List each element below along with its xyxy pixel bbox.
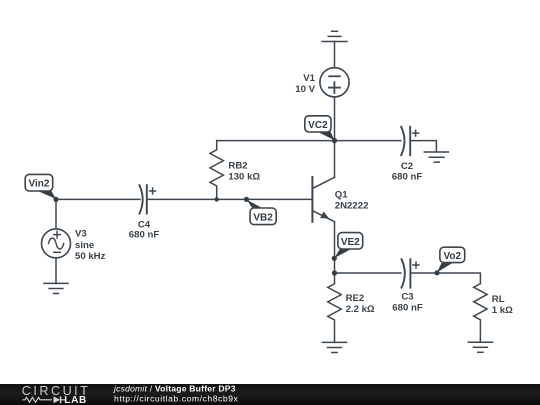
label RE2 value bbox=[346, 293, 375, 315]
svg-text:VC2: VC2 bbox=[308, 120, 328, 131]
node VC2 flag bbox=[305, 116, 335, 141]
svg-text:C2: C2 bbox=[401, 161, 413, 172]
capacitor C4 bbox=[139, 185, 146, 213]
svg-text:jcsdomit / Voltage Buffer DP3: jcsdomit / Voltage Buffer DP3 bbox=[113, 384, 236, 394]
svg-text:2.2 kΩ: 2.2 kΩ bbox=[346, 304, 375, 315]
label RB2 value bbox=[228, 161, 260, 183]
wire emitter rail right of C3 bbox=[410, 273, 480, 284]
svg-text:680 nF: 680 nF bbox=[129, 230, 160, 241]
wire C2 to ground bbox=[410, 141, 436, 152]
transistor Q1 bbox=[312, 141, 334, 273]
resistor RB2 bbox=[210, 141, 223, 200]
svg-text:RB2: RB2 bbox=[228, 161, 247, 172]
label C3 value bbox=[392, 292, 423, 314]
junction node dots bbox=[53, 138, 439, 276]
footer credit text bbox=[113, 384, 239, 404]
ground (RE2) bbox=[322, 342, 346, 352]
footer bar bbox=[0, 384, 540, 405]
svg-text:V1: V1 bbox=[303, 73, 315, 84]
label Q1 value bbox=[335, 190, 369, 212]
svg-text:V3: V3 bbox=[75, 229, 87, 240]
svg-text:680 nF: 680 nF bbox=[392, 172, 423, 183]
svg-text:Vin2: Vin2 bbox=[29, 179, 50, 190]
wire top rail bbox=[217, 140, 401, 142]
svg-text:RL: RL bbox=[492, 294, 505, 305]
wire base rail left of C4 bbox=[56, 198, 140, 200]
wire ground to V1 top bbox=[334, 42, 336, 68]
capacitor C2 bbox=[401, 127, 410, 155]
label V1 value bbox=[295, 73, 315, 95]
wire base rail right of C4 bbox=[147, 198, 312, 200]
svg-text:C3: C3 bbox=[401, 292, 413, 303]
wire emitter rail bbox=[335, 272, 401, 274]
label RL value bbox=[492, 294, 513, 316]
label C4 value bbox=[129, 219, 160, 240]
svg-text:sine: sine bbox=[75, 240, 94, 251]
node VE2 flag bbox=[334, 233, 362, 258]
capacitor C3 bbox=[402, 259, 411, 287]
svg-text:50 kHz: 50 kHz bbox=[75, 251, 106, 262]
wire V1 bottom to VC2 node bbox=[334, 97, 336, 141]
wire Vin2 down to V3 bbox=[55, 199, 57, 228]
svg-text:10 V: 10 V bbox=[295, 84, 315, 95]
source V3 (sine) bbox=[42, 229, 71, 258]
svg-text:680 nF: 680 nF bbox=[392, 302, 423, 313]
logo CIRCUIT LAB bbox=[22, 384, 91, 405]
resistor RE2 bbox=[328, 273, 341, 342]
wire V3 to ground bbox=[55, 258, 57, 283]
ground (V3) bbox=[44, 283, 68, 293]
svg-text:2N2222: 2N2222 bbox=[335, 200, 369, 211]
svg-text:http://circuitlab.com/ch8cb9x: http://circuitlab.com/ch8cb9x bbox=[114, 393, 239, 403]
ground (RL) bbox=[468, 342, 492, 352]
ground (C2) bbox=[424, 152, 448, 162]
svg-text:130 kΩ: 130 kΩ bbox=[228, 172, 260, 183]
label V3 value bbox=[75, 229, 106, 262]
svg-text:LAB: LAB bbox=[64, 395, 87, 405]
node Vo2 flag bbox=[437, 247, 465, 272]
svg-text:1 kΩ: 1 kΩ bbox=[492, 305, 513, 316]
voltage source V1 bbox=[320, 68, 349, 97]
svg-text:VE2: VE2 bbox=[341, 237, 360, 248]
resistor RL bbox=[474, 284, 487, 343]
node VB2 flag bbox=[247, 200, 277, 225]
svg-text:VB2: VB2 bbox=[253, 212, 273, 223]
svg-text:RE2: RE2 bbox=[346, 293, 365, 304]
svg-text:Q1: Q1 bbox=[335, 190, 348, 201]
label C2 value bbox=[392, 161, 423, 183]
ground (top, above V1, mirrored) bbox=[322, 31, 347, 41]
node Vin2 flag bbox=[25, 174, 56, 199]
svg-text:Vo2: Vo2 bbox=[443, 251, 461, 262]
